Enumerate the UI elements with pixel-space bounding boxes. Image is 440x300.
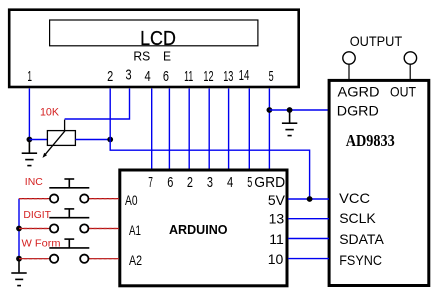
junction dot DGRD / ground [287,107,293,113]
svg-text:E: E [163,49,171,64]
ground symbol at DGRD [282,110,297,136]
junction dot 5V / VCC feed [307,196,313,202]
pushbutton INC [19,179,119,203]
svg-text:13: 13 [223,68,233,85]
wire DGRD [269,109,329,111]
svg-text:DGRD: DGRD [337,103,379,119]
wire LCD pin11 to Arduino 2 [188,89,190,171]
svg-text:10K: 10K [40,107,60,119]
output terminal OUT [404,52,416,64]
svg-text:INC: INC [25,177,43,188]
svg-text:2: 2 [187,174,193,191]
wire LCD pin2 (5V) down, across and to VCC [110,89,309,200]
wire pot right terminal to 5V node [75,139,110,141]
svg-text:6: 6 [167,174,173,191]
svg-text:RS: RS [133,49,150,64]
AD9833 box [329,80,429,285]
svg-text:A1: A1 [129,222,141,238]
wire pot left terminal [29,139,47,141]
ground symbol at button bus [11,259,26,286]
svg-text:SCLK: SCLK [339,210,376,226]
svg-text:7: 7 [148,174,153,191]
svg-text:12: 12 [203,68,213,85]
svg-text:10: 10 [268,251,284,267]
svg-text:LCD: LCD [140,27,176,50]
svg-text:VCC: VCC [339,190,370,206]
potentiometer wiper stub [64,120,66,131]
svg-text:A0: A0 [125,192,138,208]
svg-text:5: 5 [269,68,274,85]
wire LCD pin13 to Arduino 4 [228,89,230,171]
junction dot bus / button W Form / ground [16,256,22,262]
svg-text:ARDUINO: ARDUINO [169,222,228,237]
svg-text:11: 11 [269,231,284,247]
wire LCD pin4 to Arduino 7 [151,89,153,171]
svg-text:GRD: GRD [254,174,285,191]
svg-text:5V: 5V [268,192,286,208]
svg-text:DIGIT: DIGIT [23,210,51,221]
pushbutton W Form [19,239,119,263]
junction dot pin5 / DGRD [267,107,273,113]
svg-text:6: 6 [163,68,169,85]
junction dot pot right / LCD pin2 [107,137,113,143]
svg-text:AD9833: AD9833 [346,131,395,150]
potentiometer wiper arrow [43,131,66,158]
wire Arduino 13 to SCLK [288,218,329,220]
svg-text:OUTPUT: OUTPUT [350,33,403,49]
svg-text:14: 14 [239,67,250,84]
junction dot bus / button DIGIT [16,226,22,232]
output terminal AGRD [343,52,355,64]
wire Arduino 5V to AD9833 VCC [288,198,329,200]
svg-text:3: 3 [207,174,213,191]
wire button bus (left common) [18,199,20,259]
svg-text:4: 4 [227,174,233,191]
wire LCD pin1 down to ground node [28,89,30,140]
pushbutton DIGIT [19,209,119,233]
wire LCD pin6 to Arduino 6 [168,89,170,171]
svg-text:5: 5 [247,174,252,191]
potentiometer R1 10K body [47,131,75,146]
wire Arduino 10 to FSYNC [288,258,329,260]
svg-text:4: 4 [145,68,151,85]
wire LCD pin5 to Arduino GRD [268,89,270,171]
svg-text:3: 3 [126,67,132,84]
wire LCD pin12 to Arduino 3 [208,89,210,171]
svg-text:FSYNC: FSYNC [339,252,382,268]
stub terminal OUT to box [409,64,411,80]
svg-text:1: 1 [27,68,32,85]
svg-text:11: 11 [184,68,193,85]
junction dot pin1 / pot left / ground [27,137,33,143]
wire Arduino 11 to SDATA [288,238,329,240]
LCD display window [50,20,258,46]
svg-text:SDATA: SDATA [339,231,384,247]
wire LCD pin3 to pot wiper [65,89,130,120]
svg-text:AGRD: AGRD [338,83,380,99]
LCD module box [9,10,299,87]
svg-text:A2: A2 [129,252,142,268]
stub terminal AGRD to box [348,64,350,79]
svg-text:2: 2 [107,68,113,85]
svg-text:13: 13 [269,211,285,227]
ground symbol at pot left [22,140,37,166]
wire LCD pin14 to Arduino 5 [248,89,250,171]
svg-text:OUT: OUT [390,83,416,99]
Arduino box [120,170,287,286]
